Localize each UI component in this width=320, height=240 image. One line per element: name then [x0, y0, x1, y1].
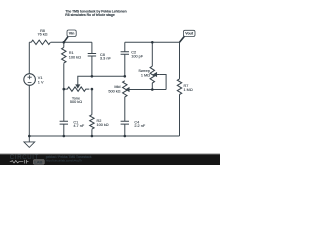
node ground [28, 135, 31, 138]
capacitor C2 plates [121, 52, 129, 55]
node C4 bottom rail [124, 135, 127, 138]
node C8 bottom [91, 75, 94, 78]
svg-text:100 kΩ: 100 kΩ [97, 123, 109, 127]
wire bottom rail [29, 135, 179, 137]
wire sweep bottom [151, 83, 153, 90]
svg-text:1 V: 1 V [38, 80, 44, 84]
node tone right [91, 88, 94, 91]
wire C8 branch [91, 42, 93, 76]
svg-text:1 MΩ: 1 MΩ [184, 88, 193, 92]
svg-text:100 pF: 100 pF [131, 55, 144, 59]
wire mid bottom / C4 branch [124, 97, 126, 136]
svg-text:R8 simulates Ro of triode stag: R8 simulates Ro of triode stage [65, 13, 115, 17]
svg-text:LAB: LAB [34, 160, 42, 165]
svg-text:2.2 nF: 2.2 nF [134, 124, 145, 128]
svg-text:4.7 nF: 4.7 nF [73, 124, 84, 128]
node Vin flag [64, 30, 76, 42]
node tone left [63, 88, 66, 91]
svg-text:Vin: Vin [69, 32, 75, 36]
potentiometer Sweep body [150, 66, 154, 83]
junction dots [28, 41, 154, 137]
resistor R7 [177, 79, 181, 95]
V1 plus sign [28, 75, 32, 79]
svg-text:100 kΩ: 100 kΩ [69, 55, 81, 59]
potentiometer Mid body [123, 81, 127, 97]
capacitor C4 plates [121, 121, 129, 124]
node C1 bottom rail [63, 135, 66, 138]
tone wiper arrow [76, 85, 80, 88]
node mid top [124, 75, 127, 78]
wire R7 branch [179, 42, 181, 136]
wire R1 branch [63, 42, 65, 89]
svg-text:1 MΩ: 1 MΩ [141, 74, 150, 78]
logo zigzag and LAB [10, 160, 29, 164]
svg-text:Sweep: Sweep [138, 69, 150, 73]
svg-text:500 kΩ: 500 kΩ [70, 100, 82, 104]
capacitor C1 plates [60, 121, 68, 124]
wire tone wiper rail [78, 76, 125, 84]
svg-text:76 kΩ: 76 kΩ [37, 33, 47, 37]
wire top rail right segment [125, 41, 180, 43]
wire mid wiper to sweep bottom [130, 89, 166, 91]
wire sweep wiper loop [159, 75, 166, 90]
svg-text:V1: V1 [38, 76, 43, 80]
resistor R8 [31, 40, 50, 44]
node R2 bottom rail [91, 135, 94, 138]
wire left branch V1 bottom [28, 85, 30, 136]
footer bar [0, 152, 220, 155]
resistor R2 [90, 115, 94, 129]
wire C1 branch [63, 89, 65, 136]
wire top rail left segment [29, 41, 92, 43]
voltage source V1 circle [24, 74, 36, 86]
node sweep top [151, 41, 154, 44]
node sweep bottom [151, 88, 154, 91]
svg-text:http://circuitlab.com/c4vq7h: http://circuitlab.com/c4vq7h [46, 159, 83, 163]
capacitor C8 plates [88, 54, 96, 57]
wire sweep branch top [151, 42, 153, 66]
resistor R1 [62, 47, 66, 63]
wire R2 branch [91, 89, 93, 136]
svg-text:Vout: Vout [185, 32, 194, 36]
svg-text:3.3 nF: 3.3 nF [100, 57, 111, 61]
V1 minus sign [28, 81, 32, 83]
potentiometer Tone body [64, 87, 89, 91]
ground [24, 136, 35, 147]
svg-text:500 kΩ: 500 kΩ [108, 89, 120, 93]
node Vout flag [180, 30, 196, 42]
node R1 top [63, 41, 66, 44]
sweep wiper arrow [154, 73, 160, 77]
mid wiper arrow [126, 88, 130, 92]
wire left branch V1 top [28, 42, 30, 74]
wire C2 branch [124, 42, 126, 76]
